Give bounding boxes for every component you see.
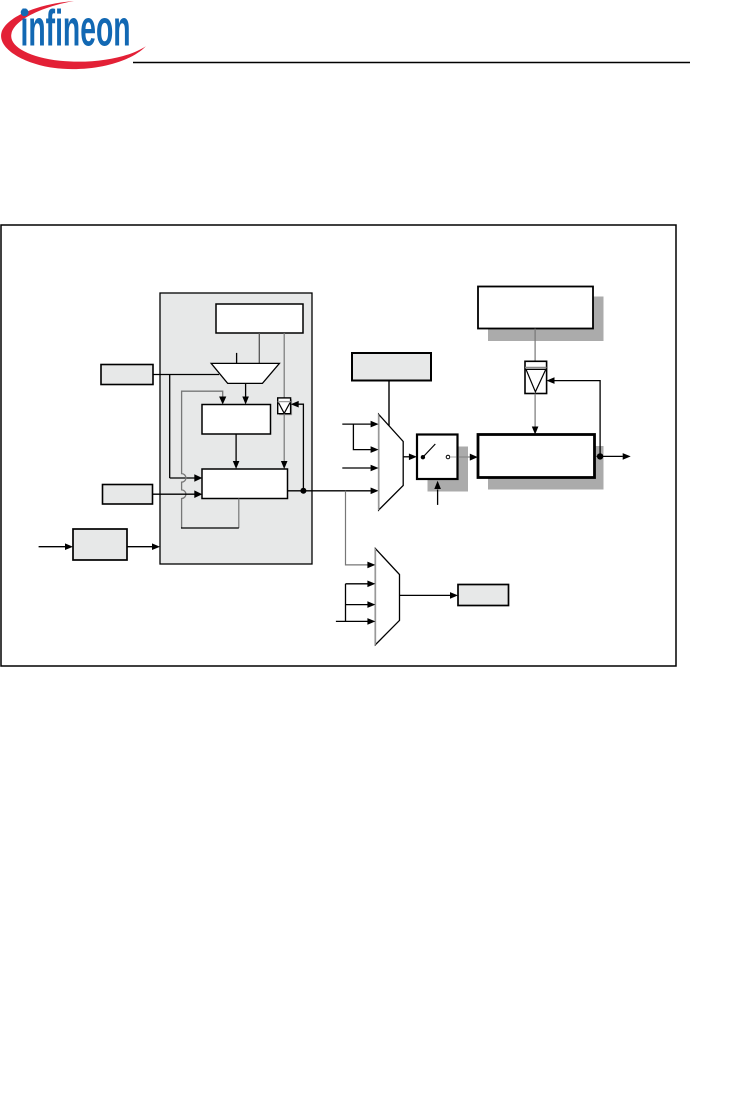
block B1 (top box inside group) — [216, 304, 303, 333]
mux2 input 3 — [346, 604, 368, 606]
feedback bottom horizontal — [181, 527, 239, 529]
switch control arrow from below — [437, 490, 439, 505]
wire box A to mux0 — [153, 374, 219, 376]
node dot on output — [597, 453, 603, 459]
gray wire B4 down to divider D2 — [534, 329, 536, 362]
switch output arrow to right box — [459, 456, 470, 458]
wire box B into B3 input 2 — [153, 493, 195, 495]
gray output box (bottom right of mux2) — [458, 585, 509, 606]
switch lever — [423, 444, 435, 457]
gray input box B (left) — [103, 485, 153, 505]
gray feedback elbow into B2 (with hops over crossing wires) — [182, 391, 223, 528]
mux1 input 3 — [342, 467, 371, 469]
mux2 output arrow — [400, 594, 451, 596]
mux1 output arrow to switch — [403, 456, 409, 458]
right box shadow — [488, 446, 604, 490]
arrow box C to group — [127, 546, 152, 548]
header rule — [133, 62, 690, 64]
wire B3 output to mux1 with junction — [288, 490, 371, 492]
mux1 input 2 branch — [353, 424, 370, 450]
node junction dot on B3 output — [300, 488, 306, 494]
output line with node dot — [597, 455, 623, 457]
block B3 (lower box inside group) — [202, 469, 288, 499]
gray input box A (left) — [101, 365, 153, 385]
gray control box (top middle) — [352, 353, 431, 381]
gray wire D1 down to B3 — [283, 414, 285, 462]
wire junction up to D1 (feedback to divider) — [298, 404, 303, 491]
divider symbol D2 — [525, 361, 547, 393]
switch throw circle — [446, 455, 450, 459]
arrow into box C — [39, 546, 65, 548]
block B2 (middle box inside group) — [202, 405, 271, 435]
mux2 input 4 — [336, 620, 368, 622]
switch gray stub to edge — [450, 456, 457, 458]
Infineon logo blue dot of the i — [21, 9, 29, 17]
top right box shadow — [488, 297, 604, 342]
mux0 select tick — [236, 353, 238, 364]
svg-text:infineon: infineon — [21, 0, 131, 57]
arrow B2 to B3 — [235, 434, 237, 461]
Infineon logo red swoosh — [1, 1, 146, 69]
wire into B3 input 1 — [170, 477, 195, 479]
gray input box C (bottom left) — [73, 529, 127, 560]
mux1 input 1 — [342, 423, 371, 425]
block B4 (top right box) — [478, 287, 593, 329]
switch box shadow — [428, 447, 469, 492]
mux1 (middle mux) — [379, 414, 404, 510]
wire B1 bypass vertical (gray) upper part — [283, 333, 285, 398]
arrow mux0 output into B2 — [245, 383, 247, 396]
divider symbol D1 (next to B2) — [279, 399, 292, 415]
mux2 input 2 — [346, 583, 368, 585]
block B5 (right output box) — [478, 435, 595, 478]
figure frame — [1, 225, 676, 666]
wire branch down from box A line — [169, 375, 171, 479]
mux0 trapezoid (top mux in group) — [211, 363, 279, 383]
gray wire D2 down to right box — [534, 394, 536, 428]
wire B1 to mux0 — [258, 333, 260, 363]
mux2 inputs 2-4 bus — [345, 584, 347, 622]
switch box — [417, 435, 458, 480]
gray group box (PLL block) — [160, 293, 312, 564]
gray branch wire from B3 output down to mux2 input 1 — [346, 491, 368, 565]
mux2 (bottom mux) — [375, 549, 399, 645]
gray feedback from B3 bottom (gray vertical) — [238, 499, 240, 529]
switch pole dot — [421, 455, 425, 459]
wire control box to mux1 — [388, 381, 390, 426]
feedback wire from output up to D2 — [554, 381, 600, 457]
